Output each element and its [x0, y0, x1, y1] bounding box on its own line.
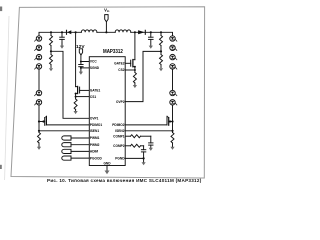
wire: PGND	[125, 157, 143, 159]
svg-text:ISEN1: ISEN1	[90, 129, 99, 133]
node: CS2 tap	[134, 69, 136, 71]
node: CS1 tap	[75, 96, 77, 98]
svg-text:CS2: CS2	[118, 68, 124, 72]
resistor R10 (COMP2)	[125, 144, 143, 147]
wire: GATE1	[80, 89, 90, 91]
svg-text:ADIM: ADIM	[90, 150, 98, 154]
svg-text:Рис. 10. Типовая схема включен: Рис. 10. Типовая схема включения ИМС SLC…	[47, 178, 202, 183]
ground (ISEN1 resistor)	[37, 147, 41, 150]
wire: OVP2 sense route	[125, 51, 161, 101]
resistor R1 (left OVP divider top)	[50, 32, 53, 51]
wire: 12V to VCC	[81, 55, 89, 62]
ground (SGND cap)	[79, 72, 83, 75]
LED string 2 (right, 6 LEDs)	[170, 36, 177, 133]
node: right switch node	[134, 31, 136, 33]
wire: CS2	[125, 69, 135, 71]
svg-text:OVP2: OVP2	[116, 100, 125, 104]
node: Q3 drain	[42, 120, 44, 122]
wire: ADIM	[71, 150, 89, 152]
node: ISEN2 tap	[171, 130, 173, 132]
wire: PDIMO1	[47, 124, 90, 126]
ground (CS1 resistor)	[74, 111, 78, 114]
svg-text:OVP1: OVP1	[90, 117, 99, 121]
svg-text:MAP3312: MAP3312	[103, 49, 123, 55]
connector ADIM	[62, 149, 71, 153]
capacitor C1 (left output cap)	[60, 32, 65, 45]
svg-text:Vin: Vin	[104, 8, 110, 14]
ground (right output cap)	[149, 46, 153, 49]
resistor R8 (ISEN2 sense)	[171, 133, 174, 148]
wire: PGND ground stub	[143, 158, 145, 162]
wire: CS1	[76, 96, 90, 98]
wire: PWM1	[71, 137, 89, 139]
wire: PGOOD	[71, 157, 89, 159]
svg-text:GATE2: GATE2	[114, 62, 125, 66]
ground (PGND)	[142, 162, 146, 165]
node: Vin junction	[105, 31, 107, 33]
svg-text:PWM1: PWM1	[90, 136, 100, 140]
transistor Q2 (right boost FET)	[131, 32, 135, 72]
svg-text:VCC: VCC	[90, 60, 97, 64]
node: SGND	[80, 67, 82, 69]
connector PWM2	[62, 143, 71, 147]
transistor Q3 (left dimming FET)	[39, 116, 47, 125]
diode D2	[138, 30, 145, 34]
wire: OVP1 sense route	[51, 51, 89, 118]
svg-text:SGND: SGND	[90, 66, 100, 70]
node: right divider top	[160, 31, 162, 33]
capacitor C3 (right output cap)	[149, 32, 154, 45]
resistor R3 (CS1 sense)	[74, 99, 77, 111]
svg-text:PDIMO2: PDIMO2	[112, 123, 124, 127]
connector 12V	[79, 49, 82, 55]
node: right divider mid	[160, 50, 162, 52]
capacitor C5 (COMP2)	[141, 146, 145, 159]
wire: Vin to rail	[105, 22, 107, 33]
inductor L1	[81, 30, 97, 32]
inductor L2	[115, 30, 131, 32]
node: left divider top	[50, 31, 52, 33]
svg-text:PGOOD: PGOOD	[90, 156, 103, 160]
ground (COMP1 cap)	[149, 148, 153, 151]
wire: top rail right section	[131, 32, 173, 36]
svg-text:COMP2: COMP2	[113, 144, 125, 148]
svg-text:ISEN2: ISEN2	[115, 129, 124, 133]
connector Vin	[105, 15, 108, 22]
figure border frame (slightly skewed, scanned)	[11, 7, 205, 178]
ground (ISEN2 resistor)	[170, 147, 174, 150]
resistor R6 (right OVP divider top)	[160, 32, 163, 51]
resistor R5 (ISEN1 sense)	[38, 133, 41, 148]
svg-text:12V: 12V	[76, 44, 85, 50]
ground (left OVP divider)	[49, 68, 53, 71]
svg-text:PDIMO1: PDIMO1	[90, 123, 102, 127]
node: right LED cathode	[171, 120, 173, 122]
svg-text:PWM2: PWM2	[90, 143, 100, 147]
wire: ISEN1	[39, 130, 89, 132]
page edge stray glyph bottom-left	[0, 165, 2, 169]
LED string 1 (left, 6 LEDs)	[35, 36, 42, 133]
ground (right OVP divider)	[159, 68, 163, 71]
resistor R9 (COMP1)	[125, 135, 151, 138]
node: Q1 source	[75, 93, 77, 95]
connector PGOOD	[62, 156, 71, 160]
svg-text:GATE1: GATE1	[90, 89, 101, 93]
node: left divider mid	[50, 50, 52, 52]
node: right cap top	[150, 31, 152, 33]
wire: PDIMO2	[125, 124, 167, 126]
node: left cap top	[61, 31, 63, 33]
node: PGND junction	[143, 157, 145, 159]
resistor R4 (CS2 sense)	[133, 73, 136, 86]
wire: top rail left section	[39, 32, 81, 36]
svg-text:PGND: PGND	[115, 157, 125, 161]
ground (left output cap)	[60, 42, 64, 49]
capacitor C2 (VCC decoupling)	[79, 62, 83, 68]
node: Q2 source	[134, 66, 136, 68]
svg-text:GND: GND	[103, 161, 111, 165]
transistor Q1 (left boost FET)	[76, 32, 80, 99]
resistor R7 (right OVP divider bottom)	[160, 51, 163, 67]
wire: ISEN2	[125, 130, 172, 132]
ground (GND main)	[105, 171, 110, 175]
wire: SGND	[81, 67, 89, 69]
node: ISEN1 tap	[38, 130, 40, 132]
wire: PWM2	[71, 144, 89, 146]
transistor Q4 (right dimming FET)	[167, 116, 173, 125]
node: Q4 drain	[169, 120, 171, 122]
wire: GND stub	[106, 166, 108, 171]
svg-text:CS1: CS1	[90, 95, 96, 99]
svg-text:COMP1: COMP1	[113, 134, 125, 138]
connector PWM1	[62, 136, 71, 140]
capacitor C4 (COMP1)	[149, 136, 153, 148]
ground (CS2 resistor)	[133, 85, 137, 88]
node: left LED cathode	[38, 120, 40, 122]
wire: SGND ground stub	[80, 68, 82, 72]
wire: rail between L1 and L2	[97, 31, 115, 33]
resistor R2 (left OVP divider bottom)	[50, 51, 53, 67]
faint page gutter line	[5, 16, 9, 180]
node: left switch node	[75, 31, 77, 33]
node: 12V VCC	[80, 61, 82, 63]
wire: GATE2	[125, 62, 131, 64]
page edge stray glyph top-left	[0, 7, 2, 12]
op-amp U1 MAP3312 body	[89, 57, 125, 166]
diode D1	[67, 30, 72, 34]
